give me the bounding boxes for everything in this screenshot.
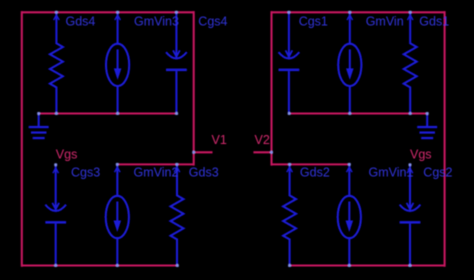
junction GmVin3 bottom: [116, 112, 119, 115]
current source GmVin: [338, 12, 361, 113]
svg-text:V1: V1: [212, 133, 227, 147]
pin square Cgs3 dangling (Vgs node): [54, 163, 57, 166]
pin square GmVin1 top: [348, 163, 351, 166]
junction GmVin2 bottom: [116, 264, 119, 267]
junction Gds2 bottom: [288, 264, 291, 267]
svg-text:Cgs2: Cgs2: [423, 166, 452, 180]
junction Cgs1 bottom: [288, 112, 291, 115]
current source GmVin2: [106, 164, 129, 265]
current source GmVin1: [338, 164, 361, 265]
pin square Cgs4 top: [175, 11, 178, 14]
wire: outer right edge: [444, 11, 446, 267]
pin square Gds1 top: [409, 11, 412, 14]
pin square Cgs1 top: [287, 11, 290, 14]
svg-text:GmVin2: GmVin2: [134, 166, 179, 180]
capacitor Cgs3: [45, 165, 66, 266]
capacitor Cgs4: [166, 12, 187, 113]
svg-text:Cgs4: Cgs4: [198, 14, 227, 28]
ground (left): [29, 114, 49, 140]
svg-text:Cgs3: Cgs3: [71, 166, 100, 180]
wire: top-left block top rail: [22, 11, 194, 13]
node V1 junction: [192, 151, 195, 154]
current source GmVin3: [106, 12, 129, 113]
wire: bottom-right block bottom rail: [290, 264, 445, 266]
wire: V1 stub: [194, 151, 213, 153]
junction Gds2 top: [288, 163, 291, 166]
wire: top-left block ground rail: [39, 112, 177, 114]
resistor Gds1: [404, 12, 417, 113]
svg-text:Gds1: Gds1: [419, 14, 449, 28]
wire: outer left edge: [21, 11, 23, 267]
junction Cgs4 bottom: [175, 112, 178, 115]
ground (right): [417, 114, 437, 140]
junction Gds3 bottom: [176, 264, 179, 267]
resistor Gds4: [50, 12, 63, 113]
pin square Gds4 top: [55, 11, 58, 14]
junction GmVin bottom: [348, 112, 351, 115]
junction GmVin1 bottom: [348, 264, 351, 267]
junction Cgs2 bottom: [409, 264, 412, 267]
resistor Gds2: [283, 164, 296, 265]
svg-text:Gds3: Gds3: [189, 166, 219, 180]
pin square GmVin top: [348, 11, 351, 14]
wire: V2 vertical (top block left edge down to lower block): [270, 11, 272, 166]
pin square ground-left node: [37, 112, 40, 115]
capacitor Cgs1: [279, 12, 300, 113]
pin square GmVin2 top: [116, 163, 119, 166]
svg-text:Vgs: Vgs: [410, 147, 432, 161]
resistor Gds3: [171, 164, 184, 265]
wire: top-right block ground rail: [289, 112, 427, 114]
junction Gds3 top: [175, 163, 178, 166]
svg-text:V2: V2: [255, 133, 270, 147]
junction Gds4 bottom: [55, 112, 58, 115]
svg-text:Cgs1: Cgs1: [299, 14, 328, 28]
pin square GmVin3 top: [116, 11, 119, 14]
svg-text:Gds2: Gds2: [300, 166, 330, 180]
svg-text:Vgs: Vgs: [56, 147, 78, 161]
node V2 junction: [270, 151, 273, 154]
pin square Cgs2 dangling (Vgs node): [409, 163, 412, 166]
wire: top-right block top rail: [272, 11, 445, 13]
wire: V1 vertical (top block right edge down to lower block): [193, 11, 195, 166]
junction Cgs3 bottom: [54, 264, 57, 267]
wire: bottom-right block top rail: [272, 163, 350, 165]
wire: bottom-left block bottom rail: [22, 264, 179, 266]
pin square ground-right node: [426, 112, 429, 115]
wire: V2 stub: [253, 151, 271, 153]
svg-text:GmVin: GmVin: [366, 14, 404, 28]
svg-text:GmVin1: GmVin1: [369, 166, 414, 180]
svg-text:GmVin3: GmVin3: [134, 14, 179, 28]
junction Gds1 bottom: [409, 112, 412, 115]
capacitor Cgs2: [400, 165, 421, 266]
wire: bottom-left block top rail: [117, 163, 193, 165]
svg-text:Gds4: Gds4: [66, 14, 96, 28]
